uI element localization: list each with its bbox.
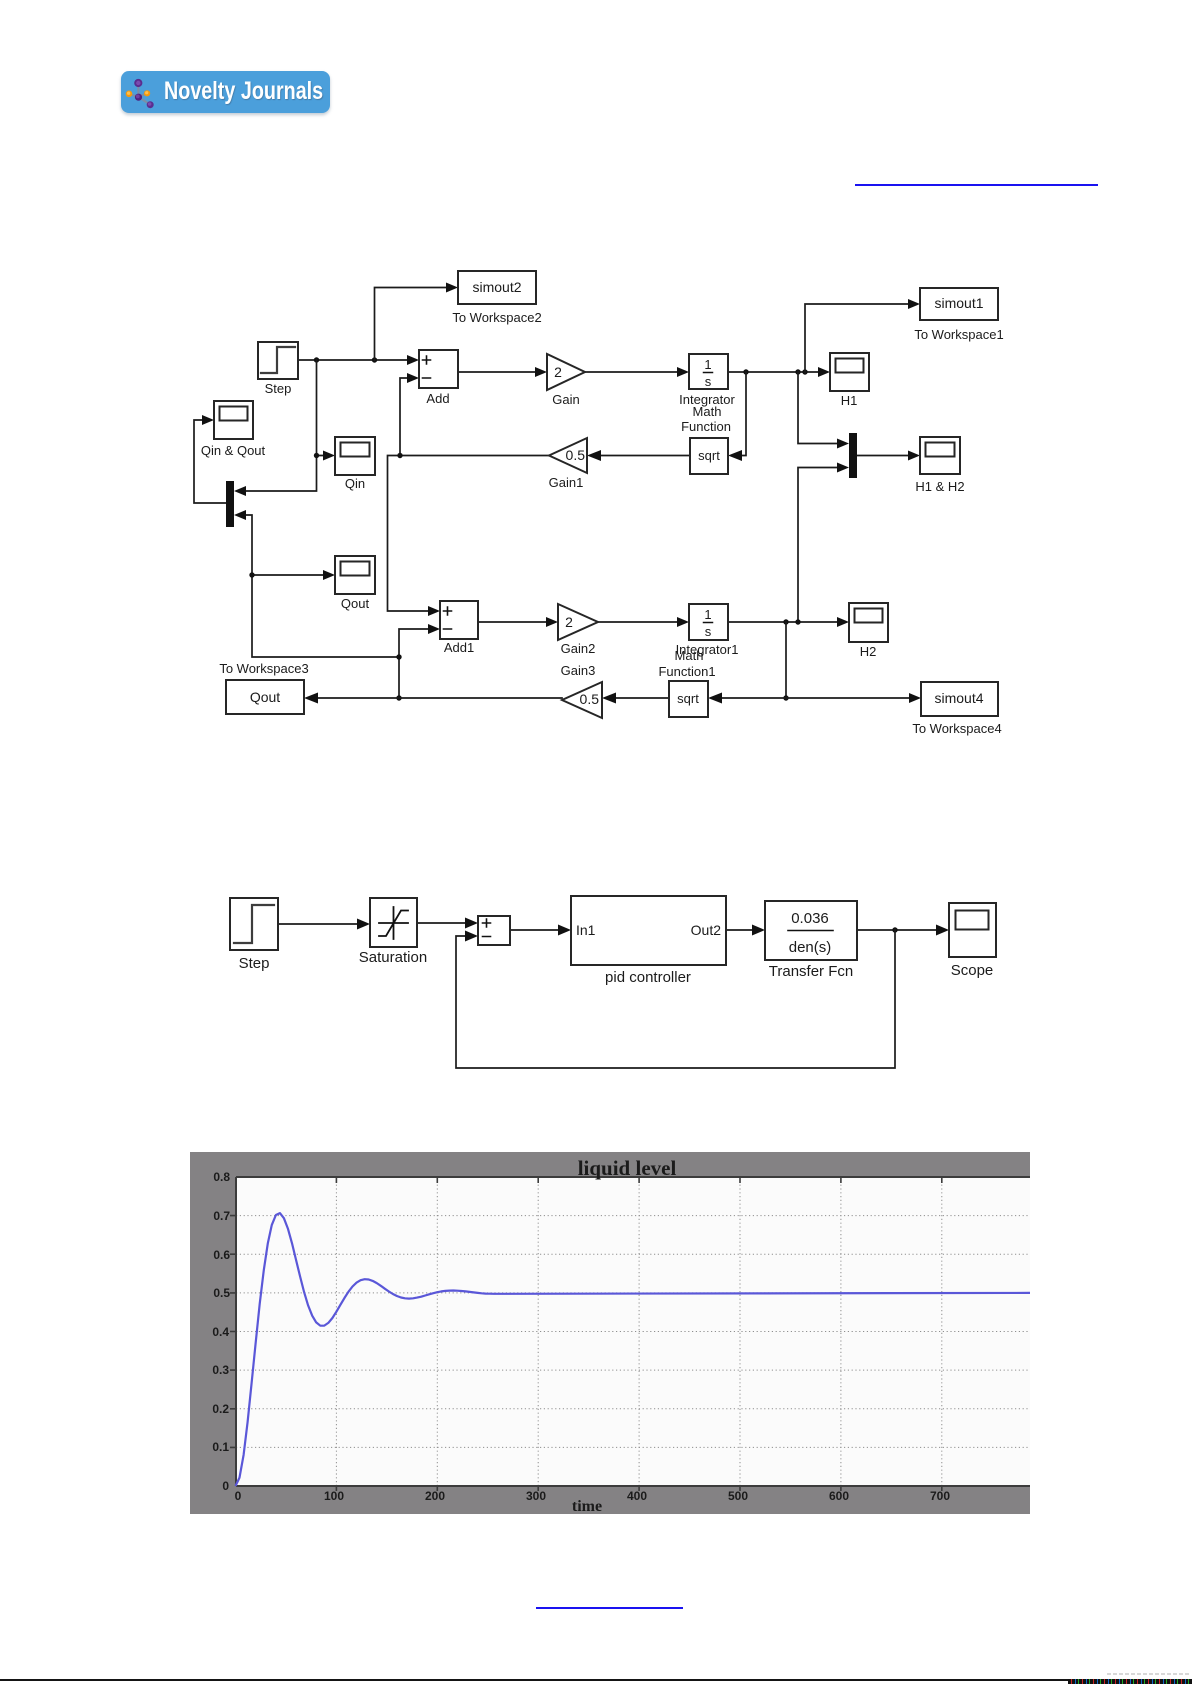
wire bottom line to simout4 <box>786 693 921 703</box>
scope Qin &amp; Qout <box>201 401 266 458</box>
blue link underline bottom center <box>536 1607 683 1609</box>
chart plot area <box>236 1177 1030 1486</box>
svg-text:0.8: 0.8 <box>213 1170 230 1184</box>
svg-text:To Workspace2: To Workspace2 <box>452 310 541 325</box>
wire Step output to Add + input <box>298 355 419 365</box>
scope H2 <box>849 603 888 659</box>
svg-text:Qin: Qin <box>345 476 365 491</box>
wire branch down to Qin scope and mux input 1 <box>234 360 335 496</box>
block Step <box>258 342 298 396</box>
svg-text:Step: Step <box>265 381 292 396</box>
wire Gain3 output to Qout workspace <box>304 693 562 704</box>
block To Workspace3 (Qout) <box>219 661 308 714</box>
svg-text:Qout: Qout <box>250 689 280 705</box>
svg-text:Qout: Qout <box>341 596 370 611</box>
svg-text:H1 & H2: H1 & H2 <box>915 479 964 494</box>
wire bottom line into sqrt1 right input <box>708 693 786 704</box>
svg-text:500: 500 <box>728 1489 748 1503</box>
svg-text:Gain3: Gain3 <box>561 663 596 678</box>
mux Mux (Qin,Qout) <box>226 481 234 527</box>
svg-text:Math: Math <box>693 404 722 419</box>
svg-text:1: 1 <box>704 607 711 622</box>
grid vertical dotted lines <box>336 1177 941 1486</box>
wire riser to To Workspace1 <box>805 299 920 372</box>
svg-text:0.5: 0.5 <box>566 447 586 463</box>
svg-text:To Workspace1: To Workspace1 <box>914 327 1003 342</box>
svg-text:Gain: Gain <box>552 392 579 407</box>
wire Step to Saturation <box>278 919 370 930</box>
svg-text:Function1: Function1 <box>658 664 715 679</box>
svg-text:Transfer Fcn: Transfer Fcn <box>769 963 853 980</box>
svg-text:0.1: 0.1 <box>212 1440 229 1454</box>
svg-text:0.5: 0.5 <box>580 691 600 707</box>
response curve <box>236 1213 1031 1486</box>
block Saturation <box>359 898 427 966</box>
svg-text:100: 100 <box>324 1489 344 1503</box>
block Integrator (1/s) <box>679 354 735 434</box>
svg-text:Step: Step <box>239 955 270 972</box>
svg-text:pid controller: pid controller <box>605 969 691 986</box>
svg-text:simout4: simout4 <box>934 690 983 706</box>
wire sqrt1 output to Gain3 <box>602 693 669 704</box>
svg-text:Add1: Add1 <box>444 640 474 655</box>
block Math Function1 sqrt <box>669 681 708 717</box>
block Add <box>419 350 458 406</box>
wire Add1 output to Gain2 <box>478 617 558 627</box>
svg-text:0: 0 <box>235 1489 242 1503</box>
svg-text:2: 2 <box>554 364 562 380</box>
svg-text:sqrt: sqrt <box>698 448 720 463</box>
wire Gain1 output to Add minus and Add1 plus <box>388 373 550 616</box>
scope Qin <box>335 437 375 491</box>
axis tick marks <box>230 1177 942 1491</box>
gain Gain (2) <box>547 354 585 407</box>
gain Gain3 (0.5) <box>562 682 602 718</box>
y axis labels <box>212 1170 230 1493</box>
wire mux2 output to H1 &amp; H2 scope <box>857 451 920 461</box>
Novelty Journals logo <box>121 71 330 113</box>
wire riser to Add1 minus input <box>396 624 440 701</box>
svg-text:simout2: simout2 <box>472 279 521 295</box>
axis box <box>236 1177 1030 1486</box>
wire sqrt output to Gain1 input <box>587 450 690 461</box>
wire H2 branch to mux2 input 2 <box>798 463 849 623</box>
blue rule top right <box>855 184 1098 186</box>
svg-text:simout1: simout1 <box>934 295 983 311</box>
svg-text:Scope: Scope <box>951 962 994 979</box>
wire Gain output to Integrator <box>585 367 689 377</box>
block To Workspace4 (simout4) <box>912 682 1001 736</box>
svg-text:den(s): den(s) <box>789 939 832 956</box>
svg-text:liquid level: liquid level <box>578 1156 677 1180</box>
wire mux output to Qin &amp; Qout scope <box>194 415 226 503</box>
node junction on Step line (branch to simout2) <box>372 357 377 362</box>
svg-text:0: 0 <box>222 1479 229 1493</box>
svg-text:Add: Add <box>426 391 449 406</box>
svg-text:700: 700 <box>930 1489 950 1503</box>
wire Gain2 output to Integrator1 <box>598 617 689 627</box>
wire Integrator output to H1 scope <box>728 367 830 377</box>
wire H1 branch to mux2 input 1 <box>798 372 849 449</box>
wire feedback loop to Sum minus input <box>456 930 895 1068</box>
bottom horizontal rule <box>0 1679 1192 1681</box>
svg-text:0.6: 0.6 <box>213 1248 230 1262</box>
svg-text:s: s <box>705 624 712 639</box>
svg-text:H1: H1 <box>841 393 858 408</box>
svg-text:Gain1: Gain1 <box>549 475 584 490</box>
svg-text:1: 1 <box>704 357 711 372</box>
svg-text:sqrt: sqrt <box>677 691 699 706</box>
svg-text:Math: Math <box>675 648 704 663</box>
bottom tiny text strip <box>1068 1679 1192 1684</box>
node junction on Step line (branch to Qin/mux) <box>314 357 319 362</box>
svg-text:0.4: 0.4 <box>212 1325 229 1339</box>
svg-text:2: 2 <box>565 614 573 630</box>
scope Qout <box>335 556 375 611</box>
svg-text:600: 600 <box>829 1489 849 1503</box>
block To Workspace2 (simout2) <box>452 271 541 325</box>
svg-text:0.3: 0.3 <box>212 1363 229 1377</box>
svg-text:In1: In1 <box>576 922 596 938</box>
svg-text:0.5: 0.5 <box>213 1286 230 1300</box>
block Math Function sqrt <box>690 438 728 474</box>
grid horizontal dotted lines <box>236 1216 1030 1448</box>
wire Sum output to pid controller In1 <box>510 925 571 936</box>
block Transfer Fcn 0.036/den(s) <box>765 901 857 980</box>
svg-text:0.2: 0.2 <box>212 1402 229 1416</box>
gain Gain2 (2) <box>558 604 598 678</box>
wire Add output to Gain <box>458 367 547 377</box>
wire Transfer Fcn to Scope <box>857 925 949 936</box>
svg-text:time: time <box>572 1498 602 1515</box>
block Add1 <box>440 601 478 655</box>
svg-text:Out2: Out2 <box>691 922 722 938</box>
svg-text:200: 200 <box>425 1489 445 1503</box>
x axis labels <box>235 1489 951 1503</box>
block Integrator1 (1/s) <box>658 604 738 679</box>
wire Integrator1 output to H2 scope <box>728 617 849 627</box>
svg-text:To Workspace4: To Workspace4 <box>912 721 1001 736</box>
wire H1 net down into sqrt input (right side) <box>728 372 746 461</box>
wire pid controller Out2 to Transfer Fcn <box>726 925 765 936</box>
chart panel background <box>190 1152 1030 1514</box>
svg-text:To Workspace3: To Workspace3 <box>219 661 308 676</box>
wire H2 net down to bottom feedback line <box>783 622 788 701</box>
svg-text:300: 300 <box>526 1489 546 1503</box>
block To Workspace1 (simout1) <box>914 288 1003 342</box>
svg-text:s: s <box>705 374 712 389</box>
gain Gain1 (0.5) <box>549 438 587 490</box>
svg-text:0.036: 0.036 <box>791 910 829 927</box>
svg-text:Function: Function <box>681 419 731 434</box>
block pid controller subsystem <box>571 896 726 986</box>
svg-text:Gain2: Gain2 <box>561 641 596 656</box>
block Sum <box>478 916 510 945</box>
mux Mux1 (H1,H2) <box>849 433 857 478</box>
wire branch up to To Workspace2 <box>375 283 459 361</box>
svg-text:400: 400 <box>627 1489 647 1503</box>
scope Scope <box>949 903 996 979</box>
wire Saturation to Sum plus input <box>417 918 478 929</box>
block Step (diagram 2) <box>230 898 278 972</box>
scope H1 <box>830 353 869 408</box>
svg-text:Saturation: Saturation <box>359 949 427 966</box>
svg-text:0.7: 0.7 <box>213 1209 230 1223</box>
scope H1 &amp; H2 <box>915 437 964 494</box>
wire Qout net: mux input 2, Qout scope, down-link <box>234 510 399 657</box>
svg-text:H2: H2 <box>860 644 877 659</box>
svg-text:Qin & Qout: Qin & Qout <box>201 443 266 458</box>
